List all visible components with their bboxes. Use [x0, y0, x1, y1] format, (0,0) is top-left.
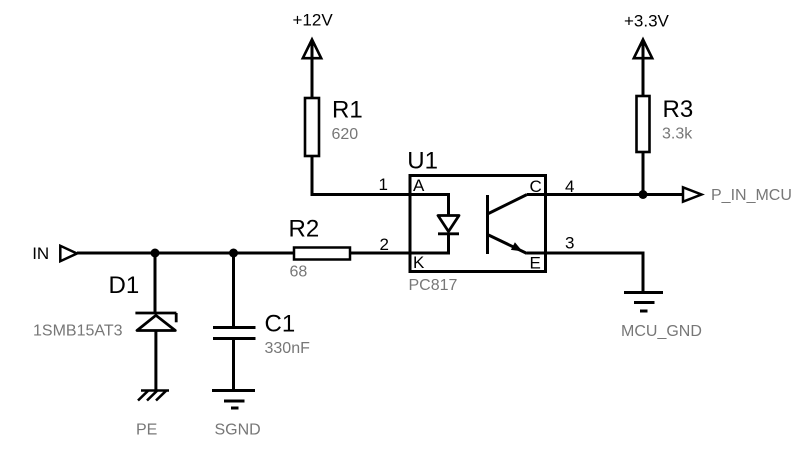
op-to body U1 box — [410, 176, 546, 272]
wire pin 3 to MCU_GND — [527, 253, 643, 292]
junction node D1 — [151, 249, 160, 258]
wire pin 4 to P_IN_MCU — [527, 193, 682, 196]
svg-text:E: E — [530, 254, 541, 273]
wire R2 to pin 2 — [351, 252, 410, 255]
LED inside U1 — [438, 216, 459, 234]
wire R3 to junction — [642, 153, 645, 197]
port P_IN_MCU connector triangle — [683, 187, 702, 201]
svg-text:R1: R1 — [332, 97, 363, 124]
svg-text:68: 68 — [290, 264, 308, 281]
phototransistor base bar — [486, 195, 489, 254]
svg-text:C1: C1 — [265, 310, 296, 337]
wire +3.3V to R3 — [642, 41, 645, 96]
zener diode D1 — [135, 313, 176, 331]
wire IN line — [77, 252, 293, 255]
wire IN to D1 — [154, 253, 157, 312]
wire U1 internal anode — [410, 195, 449, 216]
svg-text:MCU_GND: MCU_GND — [621, 323, 702, 340]
wire R1 to pin 1 — [312, 156, 410, 195]
emitter arrowhead — [511, 242, 523, 251]
svg-text:3.3k: 3.3k — [662, 126, 693, 143]
svg-text:IN: IN — [32, 244, 49, 263]
svg-text:1SMB15AT3: 1SMB15AT3 — [33, 323, 123, 340]
svg-text:330nF: 330nF — [265, 340, 311, 357]
svg-text:R2: R2 — [289, 216, 320, 243]
ground SGND symbol — [212, 391, 255, 409]
wire D1 to PE — [154, 331, 157, 390]
phototransistor collector — [489, 195, 528, 214]
svg-text:620: 620 — [332, 126, 359, 143]
power symbol +12V arrow — [303, 40, 321, 59]
svg-text:A: A — [413, 176, 425, 195]
ground PE symbol — [138, 391, 169, 401]
svg-text:PC817: PC817 — [409, 277, 458, 294]
capacitor C1 — [213, 328, 256, 339]
power symbol +3.3V arrow — [634, 40, 652, 59]
phototransistor emitter — [489, 235, 528, 254]
svg-text:1: 1 — [379, 175, 388, 194]
ground MCU_GND symbol — [624, 293, 663, 312]
wire U1 internal cathode — [410, 234, 449, 253]
svg-text:P_IN_MCU: P_IN_MCU — [711, 187, 792, 204]
wire C1 top — [232, 253, 235, 328]
svg-text:K: K — [413, 253, 425, 272]
resistor R1 — [305, 98, 319, 156]
svg-text:D1: D1 — [109, 272, 140, 299]
svg-text:R3: R3 — [663, 96, 694, 123]
wire +12V to R1 — [311, 41, 314, 98]
svg-text:+3.3V: +3.3V — [624, 11, 670, 30]
svg-text:+12V: +12V — [293, 11, 334, 30]
resistor R3 — [637, 96, 650, 152]
resistor R2 — [294, 248, 350, 260]
wire C1 to SGND — [232, 339, 235, 391]
junction node C1 — [229, 249, 238, 258]
port IN connector triangle — [60, 246, 77, 261]
junction node P_IN_MCU — [639, 190, 648, 199]
svg-text:3: 3 — [565, 234, 574, 253]
svg-text:U1: U1 — [407, 147, 438, 174]
svg-text:2: 2 — [380, 235, 389, 254]
svg-text:SGND: SGND — [215, 421, 261, 438]
svg-text:PE: PE — [136, 421, 157, 438]
